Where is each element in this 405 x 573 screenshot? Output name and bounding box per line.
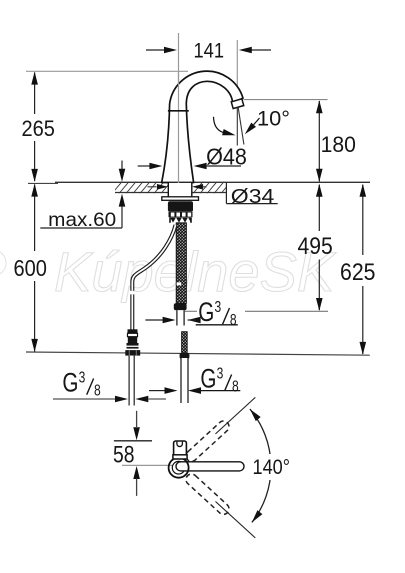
dimension 495 bbox=[298, 184, 333, 311]
pipe below lower hose nut bbox=[181, 358, 188, 403]
copper pipe (left supply) bbox=[132, 225, 175, 330]
svg-text:58: 58 bbox=[113, 442, 135, 469]
svg-text:3: 3 bbox=[79, 368, 86, 386]
dimension 265 bbox=[22, 72, 55, 182]
dimension 600 bbox=[14, 183, 59, 352]
dimension 58 bbox=[113, 411, 172, 496]
watermark KupelneSK bbox=[0, 240, 337, 303]
dimension 625 bbox=[340, 184, 376, 355]
pipe fittings (left) bbox=[125, 329, 140, 355]
svg-text:8: 8 bbox=[230, 311, 237, 329]
10 degree outlet axis lines bbox=[237, 108, 244, 146]
braided hose upper bbox=[176, 223, 186, 304]
svg-text:10°: 10° bbox=[257, 108, 290, 131]
faucet body and spout bbox=[162, 71, 244, 195]
svg-text:495: 495 bbox=[298, 233, 333, 260]
svg-text:KúpelneSK: KúpelneSK bbox=[54, 240, 337, 303]
pipe below fittings bbox=[129, 356, 134, 406]
shank through counter bbox=[168, 182, 192, 197]
reference line G3/8 upper (495 datum) bbox=[185, 310, 197, 312]
svg-text:141: 141 bbox=[194, 40, 225, 63]
extension line: spout outlet (141 right) bbox=[236, 40, 238, 96]
svg-text:180: 180 bbox=[321, 132, 356, 157]
svg-text:265: 265 bbox=[22, 116, 55, 141]
centerline over body bbox=[178, 72, 180, 196]
svg-text:max.60: max.60 bbox=[48, 209, 116, 231]
extension line: faucet centerline (141 left) bbox=[178, 33, 180, 196]
svg-text:625: 625 bbox=[340, 259, 376, 286]
body joint tick bbox=[168, 110, 189, 112]
dimension 180 bbox=[316, 100, 356, 182]
reference line: spout top level (265 top) bbox=[26, 70, 188, 72]
outlet block top view bbox=[174, 441, 187, 459]
svg-text:Ø48: Ø48 bbox=[206, 144, 247, 170]
label G3/8 left bbox=[53, 368, 166, 402]
svg-text:8: 8 bbox=[232, 377, 239, 395]
hose nut G3/8 upper bbox=[174, 303, 187, 310]
svg-text:8: 8 bbox=[94, 381, 101, 399]
svg-text:G: G bbox=[62, 368, 78, 398]
label G3/8 right lower bbox=[149, 364, 240, 395]
pipe below upper hose nut bbox=[177, 310, 184, 325]
bottom datum line (600/625) bbox=[26, 352, 370, 355]
countertop bbox=[55, 181, 370, 194]
label G3/8 upper bbox=[145, 298, 237, 329]
svg-text:3: 3 bbox=[215, 298, 222, 316]
mounting flange bbox=[162, 197, 199, 201]
dimension Ø48 bbox=[138, 144, 247, 170]
aerator bbox=[231, 99, 244, 109]
mounting nut bbox=[168, 201, 193, 223]
dimension max.60 bbox=[40, 161, 125, 232]
label Ø34 bbox=[148, 182, 278, 208]
svg-text:Ø34: Ø34 bbox=[231, 185, 274, 208]
dimension 141 bbox=[146, 40, 271, 63]
hose nut G3/8 lower bbox=[180, 353, 190, 359]
braided hose lower segment bbox=[182, 332, 188, 353]
svg-text:G: G bbox=[200, 364, 216, 394]
svg-text:140°: 140° bbox=[253, 455, 291, 479]
top view: valve body circle bbox=[169, 441, 244, 478]
top view: dashed lever positions bbox=[184, 419, 232, 517]
reference line: outlet level (180 top) bbox=[244, 99, 328, 101]
svg-text:600: 600 bbox=[14, 255, 47, 281]
top view: swing range rays bbox=[216, 397, 256, 538]
svg-text:3: 3 bbox=[217, 364, 224, 382]
swing arc 140 degrees bbox=[250, 409, 292, 522]
svg-text:G: G bbox=[198, 298, 214, 328]
10 degree annotation bbox=[214, 108, 291, 136]
lever handle bbox=[176, 462, 244, 471]
